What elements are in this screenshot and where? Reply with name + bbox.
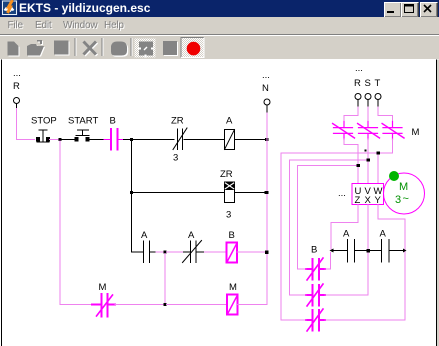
svg-text:~: ~ <box>403 193 409 205</box>
junction <box>265 191 269 194</box>
terminal T <box>375 94 381 100</box>
printer icon <box>111 42 128 57</box>
svg-text:...: ... <box>13 68 21 79</box>
svg-text:...: ... <box>262 70 270 81</box>
row3: corner from vertical <box>132 251 144 253</box>
wire vertical row3-row4 <box>164 254 166 305</box>
svg-text:A: A <box>188 230 195 241</box>
main contact M phase T <box>382 122 404 140</box>
wire X <box>367 205 369 296</box>
wire to N rail corner <box>238 304 268 306</box>
svg-text:3: 3 <box>395 194 401 206</box>
pushbutton START <box>62 130 105 141</box>
svg-text:A: A <box>343 229 350 240</box>
junction <box>367 249 371 253</box>
row2: junction <box>130 191 133 194</box>
junction <box>130 138 133 141</box>
separator <box>102 38 104 56</box>
wire phase T <box>378 107 393 122</box>
solid square icon <box>163 41 178 56</box>
row4: contact M (NC) <box>92 294 115 317</box>
svg-text:ZR: ZR <box>171 116 184 127</box>
main contact M phase R <box>333 122 355 140</box>
junction <box>164 251 167 254</box>
wire Z <box>331 205 358 250</box>
wire vertical to row2 <box>131 141 133 252</box>
tap wire V <box>290 160 369 295</box>
new icon <box>8 42 20 57</box>
wire to N <box>235 192 266 194</box>
svg-text:R: R <box>354 78 361 89</box>
wire B1 <box>298 253 331 270</box>
contact A (NC) <box>183 241 205 263</box>
wire <box>370 250 382 252</box>
svg-text:...: ... <box>355 63 363 74</box>
contact A (NO) <box>144 241 157 263</box>
contact ZR (NC timed) <box>173 128 225 150</box>
wire down-left rail <box>60 141 92 305</box>
save icon <box>54 41 70 56</box>
wire B3 <box>281 319 405 321</box>
coil M <box>227 295 238 315</box>
separator <box>75 38 77 56</box>
wire <box>124 139 131 141</box>
toggle button pressed (grid icon) <box>135 39 156 58</box>
coil A <box>225 130 235 150</box>
star contact B3 (NC) <box>306 309 325 331</box>
canvas left border <box>1 60 2 346</box>
terminal S <box>365 94 371 100</box>
minimize button <box>384 2 402 18</box>
svg-text:M: M <box>99 282 107 293</box>
star contact B2 (NC) <box>306 284 325 306</box>
wire R rail <box>17 109 35 140</box>
svg-text:3: 3 <box>173 153 178 164</box>
maximize button <box>401 2 419 18</box>
contact B (NO, closed) <box>104 129 124 150</box>
wire below contact R <box>344 139 358 184</box>
contact A1 (NO) <box>348 240 367 263</box>
svg-text:S: S <box>365 78 371 89</box>
terminal R2 <box>355 94 361 100</box>
app icon <box>0 0 20 17</box>
right junction <box>403 249 407 253</box>
canvas right border <box>436 60 437 346</box>
pushbutton STOP <box>37 130 50 142</box>
svg-text:A: A <box>380 229 387 240</box>
svg-text:B: B <box>311 245 317 256</box>
title bar <box>0 0 439 17</box>
tap wire W to star contacts <box>281 153 378 320</box>
separator <box>131 38 133 56</box>
coil ZR (timer) <box>225 182 235 203</box>
svg-text:N: N <box>262 83 269 94</box>
terminal R <box>14 98 20 104</box>
svg-text:STOP: STOP <box>31 116 57 127</box>
wire to N <box>237 251 265 253</box>
motor M 3~ <box>384 173 425 214</box>
svg-text:M: M <box>229 282 237 293</box>
svg-text:A: A <box>141 230 148 241</box>
svg-text:M: M <box>399 181 408 193</box>
toolbar <box>0 34 439 60</box>
delta row: left junction <box>330 249 334 253</box>
menu bar <box>0 17 439 34</box>
wire B2 <box>290 294 369 296</box>
stray junction dot <box>365 150 367 152</box>
wire to N rail <box>235 139 266 141</box>
green indicator <box>389 171 399 181</box>
junction <box>265 138 269 141</box>
svg-text:B: B <box>229 230 235 241</box>
main contact M phase S <box>358 122 380 140</box>
svg-text:3: 3 <box>226 210 231 221</box>
terminal N <box>264 99 270 105</box>
svg-text:...: ... <box>338 188 346 199</box>
junction <box>265 251 269 255</box>
svg-text:T: T <box>375 78 381 89</box>
wire Y <box>378 205 405 321</box>
wire <box>333 250 348 252</box>
wire phase S <box>367 107 369 122</box>
wire <box>205 251 227 253</box>
contact A2 (NO) <box>382 240 404 263</box>
wire below contact S <box>367 139 369 184</box>
coil B <box>227 243 238 263</box>
wire row2 <box>132 192 225 194</box>
open icon <box>27 40 45 57</box>
svg-text:R: R <box>13 81 20 92</box>
svg-text:A: A <box>226 116 233 127</box>
wire <box>167 304 227 306</box>
svg-text:ZR: ZR <box>220 169 233 180</box>
motor terminal box <box>352 184 384 205</box>
close button <box>420 2 438 18</box>
svg-text:M: M <box>412 127 420 138</box>
wire <box>167 251 184 253</box>
wire below contact T <box>378 139 393 153</box>
wire <box>50 139 59 141</box>
wire <box>115 304 164 306</box>
wire <box>156 251 164 253</box>
svg-text:START: START <box>68 116 98 127</box>
tap wire U <box>298 166 359 270</box>
wire N rail <box>266 113 268 305</box>
wire row1 <box>133 139 174 141</box>
delete X icon <box>84 42 98 56</box>
junction <box>59 138 62 141</box>
junction <box>164 303 167 306</box>
svg-text:B: B <box>110 116 116 127</box>
record button pressed (red circle) <box>181 38 204 58</box>
wire phase R <box>344 107 358 122</box>
